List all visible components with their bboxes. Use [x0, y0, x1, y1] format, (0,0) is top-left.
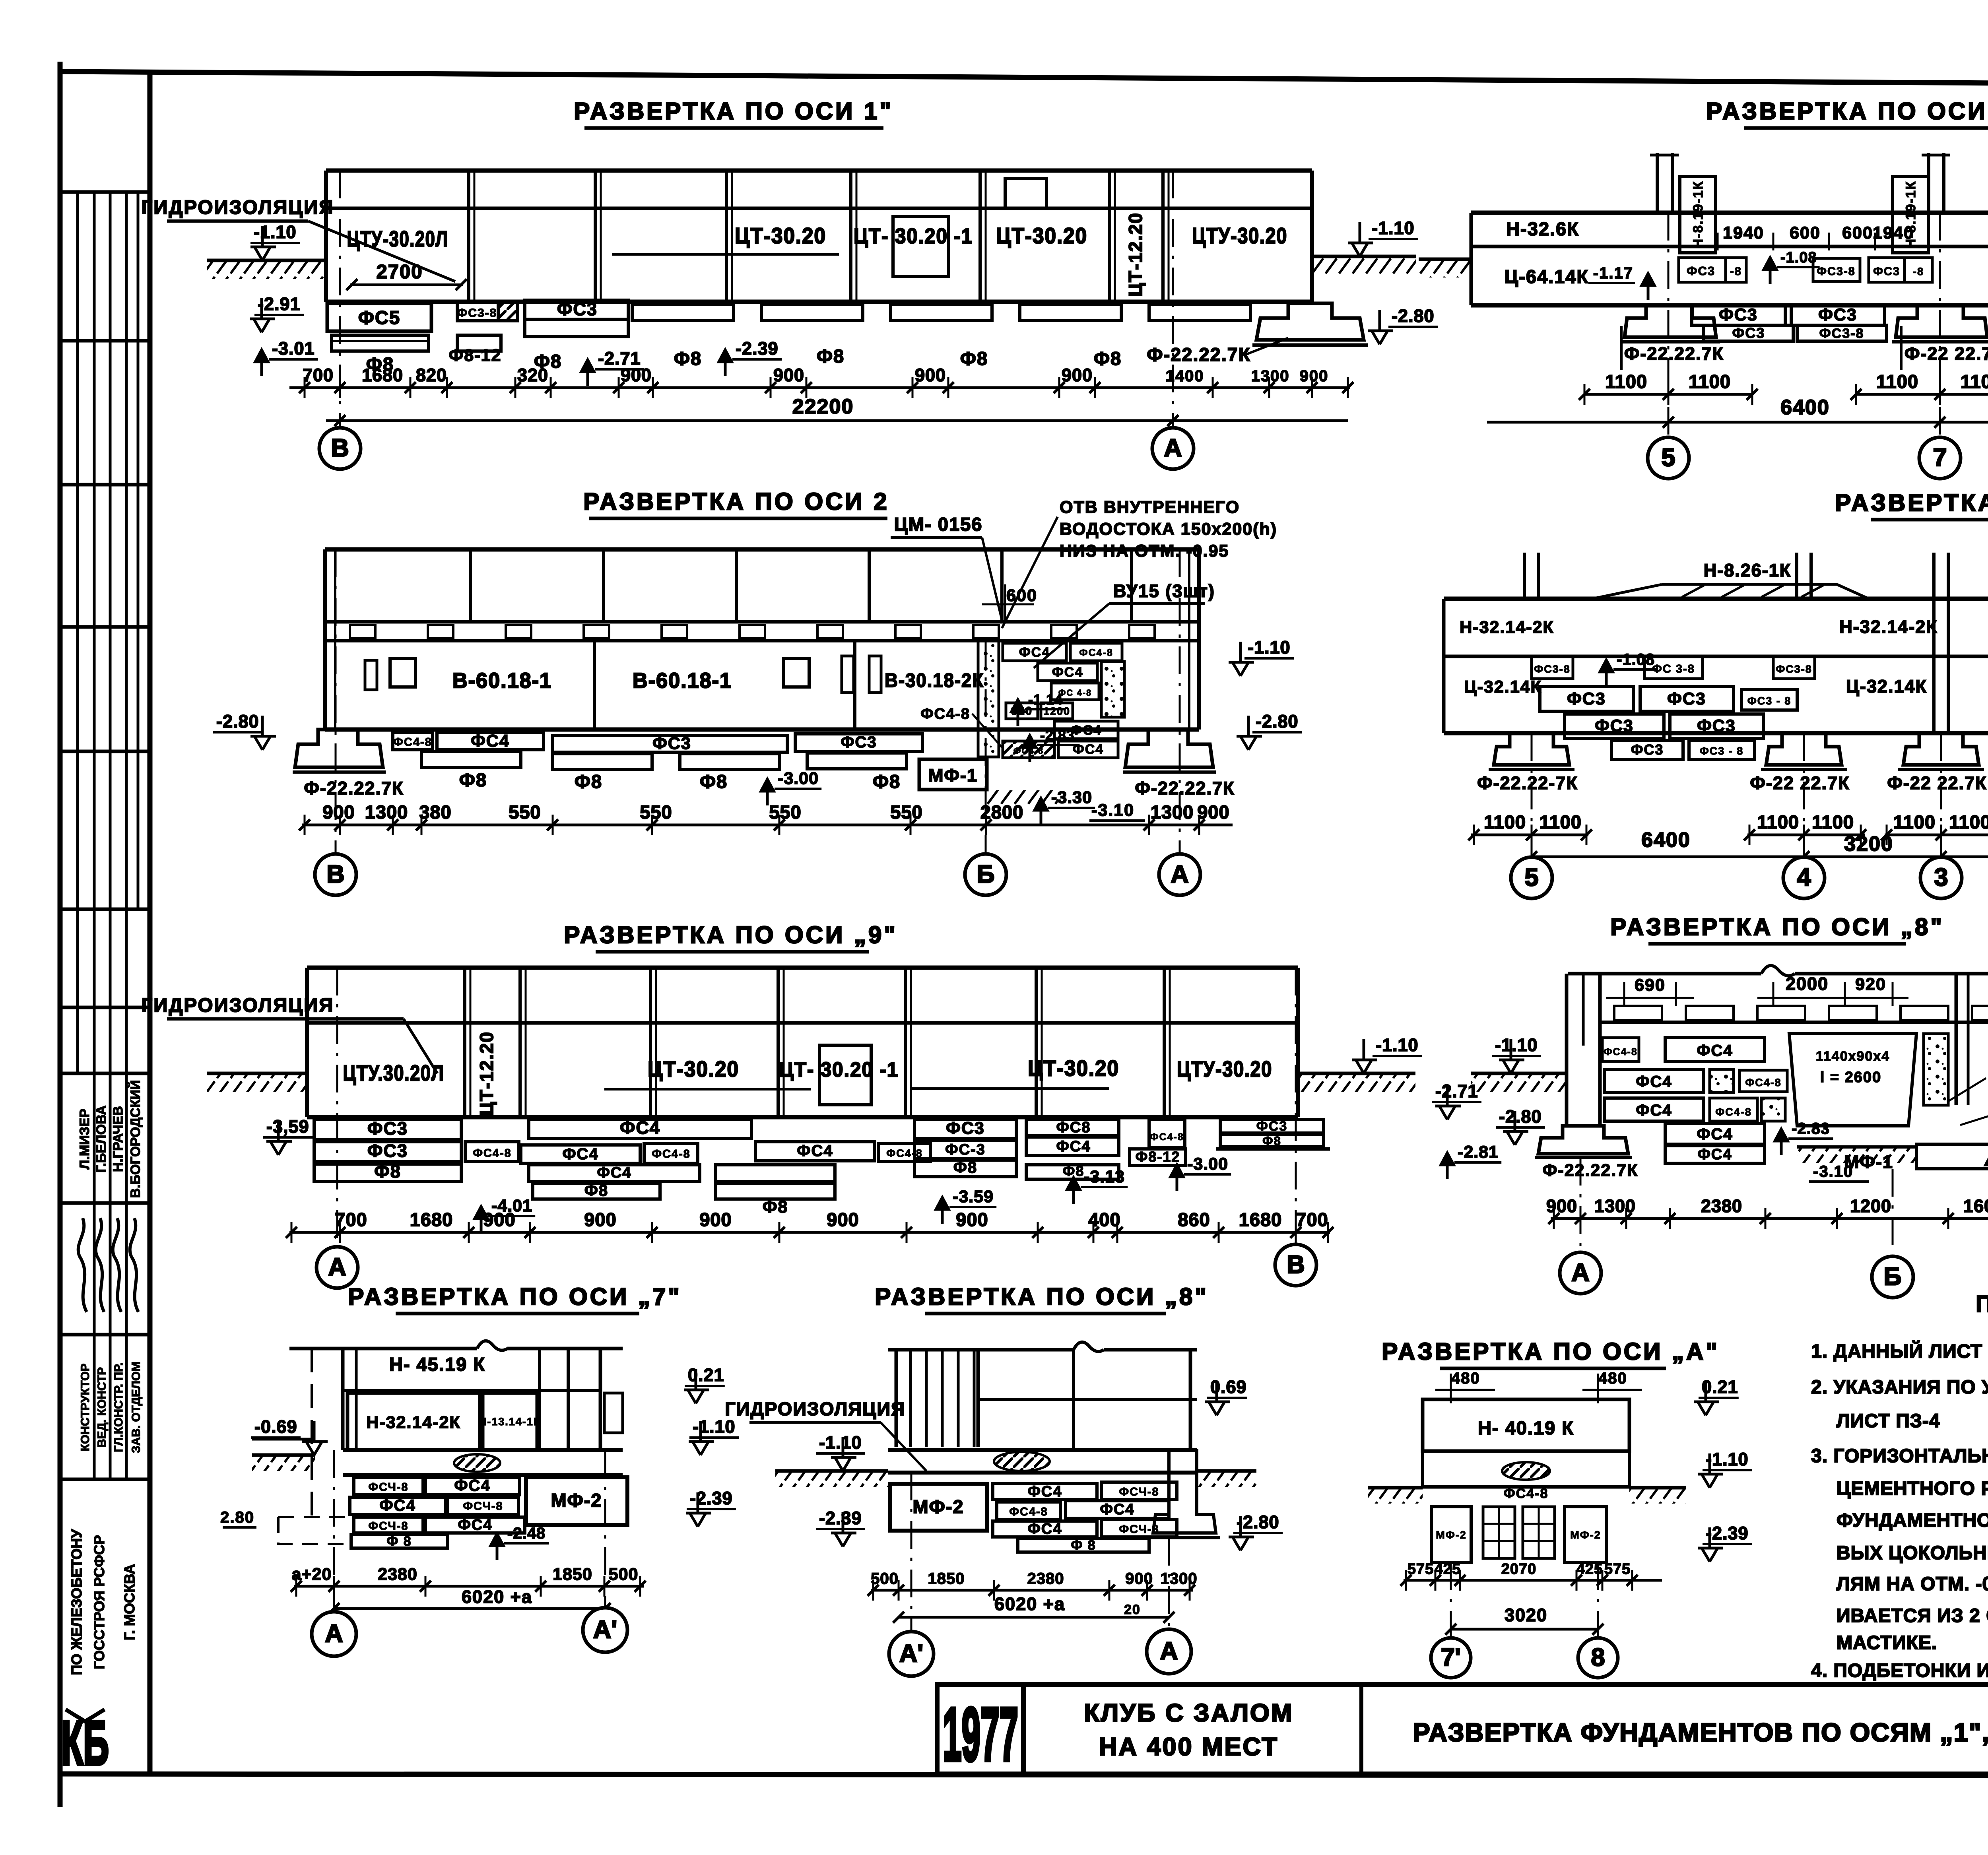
svg-text:РАЗВЕРТКА ПО ОСИ „9": РАЗВЕРТКА ПО ОСИ „9"	[564, 922, 898, 948]
svg-text:Ф8: Ф8	[674, 348, 702, 369]
svg-text:ФС3-8: ФС3-8	[1534, 663, 1571, 675]
view 8 block rows	[354, 1477, 423, 1495]
svg-text:-1.10: -1.10	[254, 222, 297, 242]
svg-text:ИВАЕТСЯ ИЗ 2 СЛОЕВ ТОЛЯ ИЛ: ИВАЕТСЯ ИЗ 2 СЛОЕВ ТОЛЯ ИЛИ ГИДРОИЗОЛА Н…	[1837, 1605, 1988, 1626]
svg-text:1300: 1300	[1151, 801, 1194, 823]
svg-text:Н- 45.19 К: Н- 45.19 К	[389, 1354, 485, 1375]
view 8 axis circle А	[312, 1612, 356, 1656]
svg-text:1300: 1300	[1161, 1570, 1198, 1587]
svg-text:В-60.18-1: В-60.18-1	[633, 669, 732, 693]
svg-text:-1.10: -1.10	[1372, 218, 1415, 238]
view 1 foundation row ФС5	[327, 303, 431, 331]
svg-text:ФС4-8: ФС4-8	[1150, 1131, 1184, 1143]
svg-text:ЦТУ-30.20: ЦТУ-30.20	[1192, 223, 1287, 248]
svg-text:ФС4: ФС4	[458, 1517, 492, 1533]
svg-text:575: 575	[1604, 1561, 1631, 1578]
svg-text:-2.81: -2.81	[1458, 1143, 1499, 1162]
svg-text:А: А	[325, 1620, 343, 1647]
view 2 axis circle 5	[1648, 437, 1689, 479]
svg-text:1100: 1100	[1540, 811, 1582, 832]
view 9 axis circle А'	[889, 1632, 934, 1676]
svg-text:-1.10: -1.10	[1376, 1035, 1419, 1055]
view 3 lower slabs	[421, 751, 521, 767]
svg-text:Ф8: Ф8	[817, 345, 845, 367]
svg-text:РАЗВЕРТКА ПО ОСИ 1": РАЗВЕРТКА ПО ОСИ 1"	[574, 98, 893, 124]
view 6 top line with break	[1568, 972, 1761, 976]
view 4 axis circle 5	[1511, 857, 1552, 898]
view 8 level -2.48	[491, 1534, 503, 1560]
view 3 axis circle Б	[965, 854, 1006, 895]
svg-text:ФС3: ФС3	[367, 1118, 408, 1139]
view 3 axis circle А	[1159, 854, 1200, 895]
svg-text:ФС3: ФС3	[557, 299, 598, 319]
svg-text:500: 500	[609, 1565, 639, 1584]
svg-text:3. ГОРИЗОНТАЛЬНАЯ ГИДРОИЗОЛЯ: 3. ГОРИЗОНТАЛЬНАЯ ГИДРОИЗОЛЯЦИЯ ВЫПОЛНЯЕ…	[1811, 1446, 1988, 1467]
svg-text:2380: 2380	[1701, 1196, 1742, 1216]
svg-text:ВОДОСТОКА 150х200(h): ВОДОСТОКА 150х200(h)	[1060, 520, 1277, 539]
sheet frame outer left border	[58, 62, 63, 1807]
view 8 base band	[343, 1448, 623, 1452]
svg-text:900: 900	[1125, 1570, 1153, 1587]
view 6 dim row	[1551, 1217, 1948, 1220]
view 1 level -1.10 left	[250, 226, 276, 260]
svg-text:700: 700	[1296, 1209, 1328, 1230]
svg-text:ЦТ-30.20: ЦТ-30.20	[996, 223, 1087, 248]
svg-text:-3.01: -3.01	[272, 338, 315, 359]
view 10 level -2.39	[1698, 1527, 1723, 1562]
svg-text:Н-8.19-1К: Н-8.19-1К	[1691, 180, 1706, 248]
svg-text:Ф-22 22.7К: Ф-22 22.7К	[1905, 343, 1988, 364]
svg-text:ФС3 - 8: ФС3 - 8	[1700, 745, 1744, 757]
svg-text:Ф8: Ф8	[873, 771, 901, 792]
svg-text:КЛУБ С ЗАЛОМ: КЛУБ С ЗАЛОМ	[1084, 1699, 1293, 1727]
svg-text:ФС3: ФС3	[1667, 689, 1706, 708]
view 8 left dashed footing	[278, 1517, 350, 1544]
svg-text:ЦМ- 0156: ЦМ- 0156	[894, 514, 983, 535]
svg-text:РАЗВЕРТКА ПО ОСИ „7": РАЗВЕРТКА ПО ОСИ „7"	[348, 1283, 682, 1310]
svg-text:ФС3: ФС3	[1256, 1119, 1287, 1134]
svg-text:Ф-22.22.7К: Ф-22.22.7К	[1135, 778, 1235, 798]
svg-text:ФС3: ФС3	[1631, 741, 1664, 758]
svg-text:1940: 1940	[1873, 223, 1914, 243]
svg-text:ФС4: ФС4	[1636, 1073, 1672, 1090]
svg-text:-2.83: -2.83	[1792, 1120, 1830, 1137]
svg-text:1200: 1200	[1850, 1196, 1891, 1216]
svg-text:2380: 2380	[1027, 1570, 1064, 1587]
svg-text:НИЗ НА ОТМ. -0.95: НИЗ НА ОТМ. -0.95	[1060, 541, 1229, 561]
view 1 panel joints	[467, 171, 470, 302]
svg-text:Ф8-12: Ф8-12	[1136, 1149, 1180, 1165]
svg-text:600: 600	[1006, 586, 1037, 605]
svg-text:-2.80: -2.80	[1392, 306, 1435, 326]
view 9 wall right part	[978, 1398, 1197, 1401]
svg-text:600: 600	[1790, 223, 1821, 243]
svg-text:-3.10: -3.10	[1091, 801, 1134, 820]
svg-text:Н- 40.19 К: Н- 40.19 К	[1478, 1417, 1574, 1438]
view 5 dim row	[289, 1231, 1330, 1234]
svg-text:Л.МИЗЕР: Л.МИЗЕР	[77, 1109, 92, 1170]
svg-text:МАСТИКЕ.: МАСТИКЕ.	[1837, 1632, 1937, 1653]
svg-text:-1.10: -1.10	[1248, 637, 1291, 658]
view 5 axis lines	[336, 968, 338, 1240]
svg-text:1100: 1100	[1961, 371, 1988, 392]
svg-text:690: 690	[1635, 976, 1666, 995]
svg-text:820: 820	[416, 365, 447, 385]
view 1 slab Ф8-12	[457, 335, 501, 351]
svg-text:900: 900	[773, 365, 804, 385]
svg-text:ФС3-8: ФС3-8	[1817, 265, 1856, 278]
stamp strip role captions (rotated)	[93, 1335, 96, 1479]
svg-text:ГИДРОИЗОЛЯЦИЯ: ГИДРОИЗОЛЯЦИЯ	[141, 197, 334, 218]
svg-text:ФС4: ФС4	[562, 1145, 598, 1163]
svg-text:2380: 2380	[378, 1565, 417, 1584]
view 6 axis circle А	[1560, 1252, 1601, 1294]
view 6 wall column left	[1565, 974, 1569, 1126]
svg-text:l = 2600: l = 2600	[1820, 1069, 1881, 1086]
svg-text:ФС5: ФС5	[358, 307, 400, 328]
stamp strip horizontal dividers	[60, 190, 150, 194]
svg-text:ОТВ ВНУТРЕННЕГО: ОТВ ВНУТРЕННЕГО	[1060, 498, 1240, 517]
svg-text:ФС4-8: ФС4-8	[473, 1147, 512, 1160]
svg-text:Ф8: Ф8	[1094, 348, 1122, 369]
view 8 axis lines	[333, 1450, 335, 1610]
svg-text:ЦТУ.30.20Л: ЦТУ.30.20Л	[343, 1060, 445, 1085]
svg-text:ФС-3: ФС-3	[945, 1141, 986, 1158]
view 1 block ФС3	[525, 300, 628, 319]
svg-text:ЛЯМ НА ОТМ. -0.67, ГОРИЗОНТА: ЛЯМ НА ОТМ. -0.67, ГОРИЗОНТАЛЬНАЯ ГИДРОИ…	[1837, 1574, 1988, 1595]
svg-text:6400: 6400	[1780, 396, 1830, 419]
view 5 level labels right	[1435, 1085, 1461, 1120]
title block top line	[937, 1682, 1988, 1687]
view 10 dim row	[1404, 1579, 1662, 1582]
view 3 upper joints	[469, 549, 472, 622]
svg-text:1680: 1680	[1239, 1209, 1282, 1230]
svg-text:В: В	[331, 434, 349, 462]
svg-text:1100: 1100	[1949, 811, 1988, 832]
view 8 walls	[341, 1349, 345, 1450]
view 3 axis circle В	[315, 854, 356, 895]
view 8 МФ-2 box	[526, 1477, 627, 1525]
view 5 right blocks ФС8 ФС4	[1026, 1120, 1119, 1135]
svg-text:-2.80: -2.80	[1256, 711, 1299, 732]
svg-text:-1.10: -1.10	[1706, 1449, 1749, 1469]
view 2 level -1.17	[1642, 274, 1654, 300]
svg-text:Ф-22.22.7К: Ф-22.22.7К	[1147, 344, 1250, 365]
svg-text:ЦТ- 30.20 -1: ЦТ- 30.20 -1	[854, 224, 973, 248]
title block object name cell	[1359, 1684, 1363, 1774]
svg-text:900: 900	[1546, 1196, 1577, 1216]
view 10 middle lattice blocks	[1483, 1507, 1515, 1558]
svg-text:ФСЧ-8: ФСЧ-8	[463, 1500, 503, 1513]
svg-text:ФС3: ФС3	[1687, 264, 1715, 278]
svg-text:550: 550	[890, 801, 922, 823]
view 9 level 0.69 right	[1205, 1381, 1230, 1415]
svg-text:-2.48: -2.48	[507, 1525, 546, 1542]
svg-text:ФС4: ФС4	[1697, 1125, 1733, 1143]
svg-text:ФС4: ФС4	[454, 1477, 490, 1494]
svg-text:ЦТУ-30.20Л: ЦТУ-30.20Л	[347, 226, 448, 251]
view 1 ground left	[207, 259, 327, 262]
view 3 level -2.83	[1023, 735, 1036, 762]
svg-text:900: 900	[584, 1209, 616, 1230]
svg-text:ФС4-8: ФС4-8	[1079, 647, 1113, 658]
svg-text:ФС3: ФС3	[1719, 305, 1758, 324]
view 6 axis lines	[1580, 1158, 1582, 1248]
view 6 МФ-1 step	[1916, 1121, 1988, 1169]
svg-text:700: 700	[335, 1209, 367, 1230]
svg-text:Ф8: Ф8	[763, 1197, 788, 1217]
svg-text:РАЗВЕРТКА ПО ОСИ 2: РАЗВЕРТКА ПО ОСИ 2	[583, 488, 889, 515]
svg-text:ФС3: ФС3	[1873, 265, 1900, 278]
view 2 dim rows 1100/1100	[1584, 393, 1752, 396]
svg-text:ЦТ-30.20: ЦТ-30.20	[735, 223, 826, 248]
svg-text:20: 20	[1124, 1602, 1141, 1617]
svg-text:А': А'	[593, 1616, 617, 1643]
svg-text:П Р И М Е Ч А Н И Я :: П Р И М Е Ч А Н И Я :	[1976, 1291, 1988, 1317]
svg-text:ФС4-8: ФС4-8	[393, 736, 432, 749]
view 5 mid small box ФС4-8 and Ф8-12	[1149, 1120, 1185, 1147]
svg-text:500: 500	[871, 1570, 899, 1587]
svg-text:900: 900	[1197, 801, 1229, 823]
svg-text:-2.80: -2.80	[1499, 1106, 1542, 1127]
view 2 pier at axis 5	[1656, 153, 1659, 213]
svg-text:Ф8: Ф8	[584, 1182, 608, 1199]
view 6 lintel row	[1600, 1021, 1988, 1024]
view 3 band bottom	[325, 728, 1199, 732]
svg-text:Ц-32.14К: Ц-32.14К	[1846, 676, 1927, 697]
svg-text:2.80: 2.80	[220, 1509, 254, 1526]
svg-text:ФСЧ-8: ФСЧ-8	[1119, 1486, 1159, 1498]
svg-text:Ф-22 22.7К: Ф-22 22.7К	[1887, 773, 1987, 793]
svg-text:А: А	[1171, 860, 1189, 888]
svg-text:В: В	[326, 860, 345, 888]
svg-text:Б: Б	[977, 860, 994, 888]
svg-text:ГОССТРОЯ РСФСР: ГОССТРОЯ РСФСР	[91, 1535, 107, 1669]
view 5 ground left	[207, 1072, 308, 1075]
svg-text:Ф-22.22.7К: Ф-22.22.7К	[1624, 343, 1724, 364]
svg-text:Ф8: Ф8	[374, 1161, 401, 1182]
svg-text:-1.08: -1.08	[1780, 249, 1817, 266]
view 9 base band	[888, 1448, 1197, 1452]
view 3 level -2.80 left	[250, 716, 276, 750]
svg-text:В-30.18-2К: В-30.18-2К	[885, 670, 984, 691]
svg-text:-3.59: -3.59	[953, 1187, 994, 1206]
svg-text:КОНСТРУКТОР: КОНСТРУКТОР	[79, 1364, 92, 1451]
view 3 level -3.00 mid	[761, 779, 774, 805]
view 1 axis line B	[339, 171, 341, 428]
svg-text:Ф 8: Ф 8	[386, 1534, 412, 1549]
view 9 ground right	[1197, 1469, 1256, 1473]
view 2 pier label box Н-8.19-1К at 7	[1893, 177, 1928, 253]
svg-text:-2.83: -2.83	[1040, 727, 1075, 743]
view 10 level -1.10	[1698, 1453, 1723, 1488]
svg-text:ЗАВ. ОТДЕЛОМ: ЗАВ. ОТДЕЛОМ	[130, 1362, 143, 1453]
svg-text:ЦЕМЕНТНОГО РАСТВОРА СОСТАВА: ЦЕМЕНТНОГО РАСТВОРА СОСТАВА 1:2 В УРОВНЕ…	[1837, 1478, 1988, 1499]
view 1 level -2.39	[719, 350, 732, 376]
view 5 band outline	[307, 966, 1298, 970]
svg-text:РАЗВЕРТКА ПО ОСИ „А": РАЗВЕРТКА ПО ОСИ „А"	[1382, 1338, 1720, 1365]
view 8 axis circle А'	[583, 1608, 627, 1652]
svg-text:380: 380	[419, 801, 451, 823]
svg-text:В-60.18-1: В-60.18-1	[452, 669, 552, 693]
svg-text:-3.10: -3.10	[1813, 1163, 1853, 1180]
svg-text:Б: Б	[1883, 1263, 1901, 1290]
svg-text:Ф 8: Ф 8	[1071, 1538, 1096, 1553]
view 9 block rows	[993, 1484, 1097, 1500]
view 10 ground right	[1629, 1486, 1686, 1490]
svg-text:Ф-22.22.7К: Ф-22.22.7К	[1543, 1161, 1639, 1180]
svg-text:2000: 2000	[1786, 974, 1829, 994]
svg-text:ФС4: ФС4	[1100, 1501, 1134, 1518]
view 10 МФ-2 boxes	[1431, 1507, 1471, 1562]
svg-text:ФС3: ФС3	[946, 1119, 985, 1138]
view 6 level -2.83	[1775, 1129, 1788, 1155]
view 4 small blocks row between 5 and 4	[1532, 656, 1573, 679]
svg-text:Н-32.14-2К: Н-32.14-2К	[1839, 617, 1938, 637]
view 1 footing Ф-22.22.7К right	[1256, 303, 1364, 340]
svg-text:6020 +а: 6020 +а	[994, 1594, 1065, 1614]
title block bottom line	[937, 1772, 1988, 1776]
svg-text:1680: 1680	[410, 1209, 453, 1230]
view 4 band outline	[1444, 597, 1988, 601]
svg-text:РАЗВЕРТКА ПО ОСИ „8": РАЗВЕРТКА ПО ОСИ „8"	[1610, 914, 1944, 940]
sheet frame bottom border	[60, 1774, 1988, 1776]
svg-text:1. ДАННЫЙ ЛИСТ СМ. СОВМЕСТН: 1. ДАННЫЙ ЛИСТ СМ. СОВМЕСТНО С ЛИСТАМИ А…	[1811, 1340, 1988, 1362]
svg-text:ФС3-8: ФС3-8	[457, 307, 497, 320]
view 8 marks right: -1.10	[689, 1421, 714, 1455]
view 4 footings	[1494, 733, 1569, 765]
view 4 axis circle 4	[1783, 857, 1825, 898]
view 3 blocks below band	[393, 732, 433, 750]
svg-text:1100: 1100	[1689, 371, 1731, 392]
svg-text:ФС4-8: ФС4-8	[1745, 1077, 1782, 1089]
view 5 panel joints	[463, 968, 466, 1117]
svg-text:А: А	[328, 1253, 346, 1281]
svg-text:1300: 1300	[1594, 1196, 1636, 1216]
view 5 ground right	[1298, 1072, 1415, 1075]
view 2 pier label box Н-8.19-1К at 5	[1680, 177, 1716, 253]
view 6 dotted column	[1924, 1034, 1948, 1105]
svg-text:900: 900	[827, 1209, 859, 1230]
svg-text:ФС3: ФС3	[1567, 689, 1606, 708]
svg-text:ФС3: ФС3	[1697, 716, 1736, 735]
svg-text:ФС4: ФС4	[620, 1118, 660, 1138]
svg-text:Ф8: Ф8	[459, 769, 487, 790]
view 10 panel box	[1423, 1399, 1629, 1451]
stamp strip signatures (rotated squiggles)	[93, 1203, 96, 1335]
view 8 panels	[348, 1393, 480, 1450]
svg-text:900: 900	[483, 1209, 515, 1230]
view 4 axis lines	[1531, 733, 1533, 856]
svg-text:ФС4: ФС4	[1027, 1483, 1062, 1500]
svg-text:Г.БЕЛОВА: Г.БЕЛОВА	[94, 1105, 109, 1172]
svg-text:ФС4-8: ФС4-8	[652, 1148, 691, 1160]
svg-text:900: 900	[699, 1209, 732, 1230]
svg-text:ФС3: ФС3	[652, 734, 691, 753]
svg-text:0.21: 0.21	[688, 1365, 724, 1385]
svg-text:320: 320	[517, 365, 548, 385]
svg-text:ФСЧ-8: ФСЧ-8	[368, 1520, 408, 1533]
svg-text:700: 700	[303, 365, 334, 385]
svg-text:8: 8	[1591, 1643, 1605, 1671]
svg-text:Ф-22.22.7К: Ф-22.22.7К	[304, 778, 404, 798]
svg-text:ФС3-8: ФС3-8	[1819, 326, 1864, 341]
svg-text:900: 900	[915, 365, 946, 385]
svg-text:-2.80: -2.80	[216, 711, 259, 732]
svg-text:ФС4: ФС4	[1697, 1042, 1733, 1059]
view 1 axis circle В	[319, 428, 361, 469]
svg-text:Ф-22 22.7К: Ф-22 22.7К	[1750, 773, 1850, 793]
svg-text:Ф8: Ф8	[960, 348, 988, 369]
view 4 ФС3 blocks under left span	[1540, 687, 1633, 711]
svg-text:860: 860	[1178, 1209, 1210, 1230]
svg-text:РАЗВЕРТКА ПО ОСИ „8": РАЗВЕРТКА ПО ОСИ „8"	[875, 1283, 1209, 1310]
view 5 axis circle В	[1275, 1244, 1316, 1286]
view 1 wide slabs with Ф8 labels	[632, 305, 734, 320]
svg-text:ФС3-8: ФС3-8	[1776, 663, 1812, 675]
view 3 joint at mid panels	[593, 641, 596, 730]
svg-text:В.БОГОРОДСКИЙ: В.БОГОРОДСКИЙ	[128, 1080, 143, 1198]
view 2 small blocks between axes 5 and 7	[1679, 258, 1726, 282]
svg-text:-1.08: -1.08	[1617, 651, 1655, 668]
view 5 axis circle А	[316, 1247, 358, 1288]
view 2 axis circle 7	[1919, 437, 1961, 479]
svg-text:ФС4-8: ФС4-8	[1504, 1486, 1549, 1501]
svg-text:5: 5	[1661, 444, 1675, 472]
view 6 trench block	[1789, 1034, 1916, 1126]
svg-text:1680: 1680	[362, 365, 403, 385]
view 9 МФ-2 box	[890, 1484, 987, 1531]
view 6 axis circle Б	[1872, 1256, 1913, 1298]
svg-text:ФС3: ФС3	[841, 733, 877, 751]
view 9 axis lines	[911, 1473, 912, 1630]
svg-text:ГИДРОИЗОЛЯЦИЯ: ГИДРОИЗОЛЯЦИЯ	[725, 1398, 905, 1419]
svg-text:Н-8.26-1К: Н-8.26-1К	[1704, 560, 1792, 580]
view 6 footing	[1538, 1126, 1628, 1154]
svg-text:ФС4: ФС4	[797, 1142, 833, 1160]
svg-text:7: 7	[1933, 444, 1947, 472]
svg-text:ГИДРОИЗОЛЯЦИЯ: ГИДРОИЗОЛЯЦИЯ	[141, 995, 334, 1016]
view 9 level -2.39 left	[831, 1512, 856, 1546]
view 9 axis circle А	[1147, 1629, 1191, 1674]
svg-text:-2.39: -2.39	[736, 338, 779, 359]
svg-text:2. УКАЗАНИЯ ПО УСТРОЙСТВУ В: 2. УКАЗАНИЯ ПО УСТРОЙСТВУ ВЕРТИКАЛЬНОЙ Г…	[1811, 1376, 1988, 1398]
svg-text:Ф-22.22-7К: Ф-22.22-7К	[1477, 773, 1578, 793]
svg-text:-8: -8	[1913, 266, 1924, 277]
svg-text:ЦТ- 30.20 -1: ЦТ- 30.20 -1	[779, 1058, 899, 1081]
view 1 axis line A	[1172, 171, 1174, 428]
svg-text:ЦТУ-30.20: ЦТУ-30.20	[1177, 1056, 1272, 1081]
svg-text:МФ-2: МФ-2	[1436, 1529, 1467, 1541]
svg-text:Н.ГРАЧЕВ: Н.ГРАЧЕВ	[111, 1106, 126, 1172]
svg-text:4. ПОДБЕТОНКИ И ЗАДЕЛКИ ПО: 4. ПОДБЕТОНКИ И ЗАДЕЛКИ ПО МЕСТУ ВЫПОЛНЯ…	[1811, 1660, 1988, 1681]
stamp strip vertical rules	[76, 192, 79, 1073]
svg-text:3: 3	[1934, 863, 1948, 891]
svg-text:ПО ЖЕЛЕЗОБЕТОНУ: ПО ЖЕЛЕЗОБЕТОНУ	[68, 1529, 85, 1675]
view 4 columns above band	[1523, 553, 1526, 599]
svg-text:-1.10: -1.10	[819, 1432, 862, 1453]
view 10 dim 3020	[1451, 1628, 1598, 1631]
svg-text:425: 425	[1435, 1561, 1461, 1578]
svg-text:5: 5	[1524, 863, 1538, 891]
svg-text:ФС 3-8: ФС 3-8	[1652, 663, 1695, 675]
view 1 level -2.80 right	[1368, 310, 1393, 344]
svg-text:3200: 3200	[1844, 832, 1893, 856]
svg-text:400: 400	[1088, 1209, 1120, 1230]
view 2 level -1.08	[1764, 258, 1776, 284]
svg-text:ФС4: ФС4	[597, 1164, 631, 1181]
svg-text:1300: 1300	[365, 801, 408, 823]
